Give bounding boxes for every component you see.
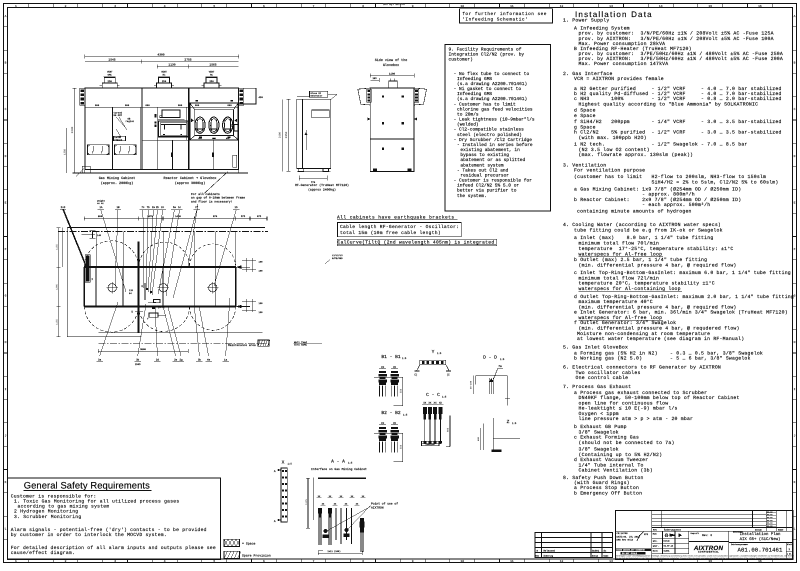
svg-text:1/4" Tube internal To: 1/4" Tube internal To <box>579 462 644 468</box>
svg-text:3/8" Swagelok: 3/8" Swagelok <box>579 429 619 435</box>
svg-text:gez.: gez. <box>653 540 658 543</box>
svg-text:XX: XX <box>381 422 385 425</box>
svg-text:Weitergabe sowie Vervielfältig: Weitergabe sowie Vervielfältigung dieser… <box>616 555 795 558</box>
svg-text:1175: 1175 <box>305 499 308 505</box>
svg-text:customer): customer) <box>449 57 473 63</box>
svg-text:xx.xx: xx.xx <box>767 525 772 527</box>
svg-text:f SiH4/H2 200ppm - 1/4: f SiH4/H2 200ppm - 1/4" VCRF - 3.0 … 3.5… <box>574 119 782 125</box>
svg-text:90 OFF: 90 OFF <box>114 114 123 117</box>
svg-text:2e: 2e <box>174 359 178 362</box>
svg-text:3: 3 <box>114 560 116 563</box>
svg-text:(approx 2400kg): (approx 2400kg) <box>308 188 336 192</box>
svg-text:Cable length RF-Generator - Os: Cable length RF-Generator - Oscillator: <box>340 224 459 230</box>
svg-text:minimum total flow 70l/min: minimum total flow 70l/min <box>579 241 660 247</box>
svg-text:14: 14 <box>659 5 663 8</box>
svg-text:AIX G5+ (SiC/New): AIX G5+ (SiC/New) <box>740 537 781 542</box>
svg-text:12: 12 <box>560 560 564 563</box>
svg-text:F: F <box>5 248 7 251</box>
svg-text:4. Cooling Water (according to: 4. Cooling Water (according to AIXTRON w… <box>563 222 721 228</box>
svg-text:Moisture non-condensing at roo: Moisture non-condensing at room temperat… <box>577 331 710 337</box>
svg-text:For all cabinets: For all cabinets <box>191 192 220 196</box>
svg-text:infeed Cl2/N2 5% 5.0 or: infeed Cl2/N2 5% 5.0 or <box>457 183 519 189</box>
svg-text:RF-Generator (TruHeat MF7120): RF-Generator (TruHeat MF7120) <box>295 183 349 187</box>
svg-text:region: region <box>126 120 135 123</box>
svg-text:5a: 5a <box>173 206 177 209</box>
svg-text:- Customer has to limit: - Customer has to limit <box>454 101 516 107</box>
svg-text:abatement system: abatement system <box>460 162 504 168</box>
svg-text:'Infeeding Schematic': 'Infeeding Schematic' <box>462 17 528 23</box>
svg-text:7: 7 <box>313 560 315 563</box>
svg-text:D: D <box>5 155 7 158</box>
svg-text:Blatt: Blatt <box>787 543 792 546</box>
svg-text:4300: 4300 <box>157 54 164 57</box>
svg-text:1:5: 1:5 <box>402 357 407 360</box>
svg-text:3800: 3800 <box>140 348 146 351</box>
svg-text:SiH4/H2 = 2% to 5slm, Cl2/N2 5: SiH4/H2 = 2% to 5slm, Cl2/N2 5% to 60slm… <box>574 180 779 186</box>
svg-text:C: C <box>794 108 796 111</box>
svg-text:B1 - B1: B1 - B1 <box>381 354 401 360</box>
svg-text:and floor is necessary!: and floor is necessary! <box>191 199 233 203</box>
svg-text:575: 575 <box>241 215 246 218</box>
svg-text:800: 800 <box>98 215 103 218</box>
svg-text:1:5: 1:5 <box>500 358 505 361</box>
svg-text:11: 11 <box>510 5 514 8</box>
svg-text:2: 2 <box>65 5 67 8</box>
svg-text:G: G <box>5 295 7 298</box>
svg-text:50-100: 50-100 <box>470 380 473 389</box>
svg-text:Name: Name <box>778 528 784 531</box>
svg-text:4: 4 <box>164 5 166 8</box>
svg-text:xx.xx: xx.xx <box>767 511 772 513</box>
svg-text:3. Ventilation: 3. Ventilation <box>563 163 606 169</box>
svg-text:I: I <box>5 388 7 391</box>
svg-text:1250: 1250 <box>63 148 66 155</box>
svg-text:i N2 tech. - 1/2: i N2 tech. - 1/2" Swagelok - 7.0 … 8.5 b… <box>574 142 748 148</box>
svg-text:b Emergency Off Button: b Emergency Off Button <box>574 491 642 497</box>
svg-text:8: 8 <box>362 560 364 563</box>
svg-text:3b: 3b <box>198 359 202 362</box>
svg-text:10: 10 <box>460 560 464 563</box>
svg-text:C|: C| <box>414 372 417 376</box>
svg-text:- Installed in series before: - Installed in series before <box>457 142 533 148</box>
svg-text:550: 550 <box>400 444 403 449</box>
svg-text:SuS01: SuS01 <box>592 550 600 553</box>
svg-text:abatement or as splitted: abatement or as splitted <box>460 157 525 163</box>
svg-text:a Process Stop Button: a Process Stop Button <box>574 485 639 491</box>
svg-text:Maintenance area: Maintenance area <box>228 343 256 347</box>
svg-text:F: F <box>794 248 796 251</box>
svg-text:by customer in order to interl: by customer in order to interlock the MO… <box>11 532 167 538</box>
svg-text:SuS01: SuS01 <box>664 550 671 553</box>
svg-text:[5-7]: [5-7] <box>158 306 165 309</box>
svg-text:Installation Plan: Installation Plan <box>740 532 781 537</box>
svg-text:(Containing up to 5% H2/N2): (Containing up to 5% H2/N2) <box>579 452 663 458</box>
svg-text:140: 140 <box>97 234 102 237</box>
svg-text:1c: 1c <box>178 206 182 209</box>
svg-text:2: 2 <box>65 560 67 563</box>
svg-text:7c: 7c <box>141 206 145 209</box>
svg-text:temperature 20°C, temperature: temperature 20°C, temperature stability … <box>579 281 715 287</box>
svg-text:GMC: GMC <box>108 73 113 76</box>
svg-text:temperature 17°-25°C, tempera: temperature 17°-25°C, temperature stabil… <box>579 246 734 252</box>
svg-text:6. Electrical connectors to RF: 6. Electrical connectors to RF Generator… <box>563 364 721 370</box>
svg-text:(customer has to limit H2-fl: (customer has to limit H2-flow to 200slm… <box>574 174 766 180</box>
svg-text:A01.00.701461: A01.00.701461 <box>738 547 783 554</box>
svg-text:(approx. 2000kg): (approx. 2000kg) <box>101 181 134 186</box>
svg-text:tube fitting could be e.g from: tube fitting could be e.g from IK-ok or … <box>574 227 723 233</box>
svg-text:Gas Mixing Cabinet: Gas Mixing Cabinet <box>99 176 136 181</box>
svg-text:5: 5 <box>213 5 215 8</box>
svg-text:B: B <box>5 62 7 65</box>
svg-text:7a: 7a <box>498 365 502 368</box>
svg-text:250: 250 <box>108 80 113 83</box>
svg-text:J: J <box>794 434 796 437</box>
svg-text:2100: 2100 <box>279 131 282 138</box>
svg-text:the system.: the system. <box>457 193 487 199</box>
svg-text:DMS Rev 0/13: DMS Rev 0/13 <box>617 538 634 541</box>
svg-text:185: 185 <box>372 77 377 80</box>
svg-text:4e: 4e <box>207 359 211 362</box>
svg-text:(min. differential pressure 4: (min. differential pressure 4 bar, @ req… <box>579 326 740 332</box>
svg-text:1a: 1a <box>224 359 228 362</box>
svg-text:2g: 2g <box>179 359 183 362</box>
svg-text:15: 15 <box>708 560 712 563</box>
svg-text:02.07.13: 02.07.13 <box>664 545 674 548</box>
svg-text:b Exhaust GB Pump: b Exhaust GB Pump <box>574 424 627 430</box>
svg-text:150: 150 <box>259 302 264 305</box>
svg-text:1A: 1A <box>99 206 103 209</box>
svg-text:a Inlet (max) 8.0 bar, 1 1/: a Inlet (max) 8.0 bar, 1 1/4" tube fitti… <box>574 235 713 241</box>
svg-text:b Working gas (N2 5.0): b Working gas (N2 5.0) - 5 … 6 bar, 3/8"… <box>574 356 751 362</box>
svg-text:3b: 3b <box>136 359 140 362</box>
svg-text:Spare Provision: Spare Provision <box>242 554 271 558</box>
svg-text:12: 12 <box>560 5 564 8</box>
svg-text:(with Guard Rings): (with Guard Rings) <box>574 480 630 486</box>
svg-text:(min. differential pressure 4: (min. differential pressure 4 bar, @ req… <box>579 304 737 310</box>
svg-text:1565: 1565 <box>209 64 216 67</box>
svg-text:for further information see: for further information see <box>462 11 547 17</box>
svg-text:- Customer is responsible for: - Customer is responsible for <box>454 178 533 184</box>
svg-text:Änderungstext: Änderungstext <box>664 528 682 531</box>
svg-text:Y: Y <box>432 349 435 355</box>
svg-text:250x250: 250x250 <box>425 443 435 446</box>
svg-text:150: 150 <box>259 311 264 314</box>
svg-text:Rev: Rev <box>653 528 658 531</box>
svg-text:970: 970 <box>213 215 218 218</box>
svg-text:CONFIDENTIAL: CONFIDENTIAL <box>698 551 719 554</box>
svg-text:8: 8 <box>362 5 364 8</box>
svg-text:bypass to existing: bypass to existing <box>460 152 509 158</box>
svg-text:8. Safety Push Down Button: 8. Safety Push Down Button <box>563 475 644 481</box>
svg-text:- each approx. 500m³/h: - each approx. 500m³/h <box>574 202 710 208</box>
svg-text:1130: 1130 <box>168 64 175 67</box>
svg-text:Infeeding GMS: Infeeding GMS <box>457 76 492 82</box>
svg-text:(welded): (welded) <box>457 122 479 128</box>
svg-text:2b: 2b <box>156 206 160 209</box>
svg-text:13: 13 <box>609 560 613 563</box>
svg-text:He-leaktight ≤ 10 E(-9) mbar l: He-leaktight ≤ 10 E(-9) mbar l/s <box>579 406 678 412</box>
svg-text:- Takes out Cl2 and: - Takes out Cl2 and <box>457 167 509 173</box>
svg-text:xx.xx: xx.xx <box>767 523 772 525</box>
svg-text:10: 10 <box>460 5 464 8</box>
svg-text:xx.xx: xx.xx <box>767 514 772 516</box>
svg-text:VCR = AIXTRON provides female: VCR = AIXTRON provides female <box>574 76 664 82</box>
svg-text:Max. Power consumption 147kVA: Max. Power consumption 147kVA <box>579 61 669 67</box>
svg-text:430: 430 <box>259 96 264 99</box>
svg-text:d Exhaust Vacuum Tweezer: d Exhaust Vacuum Tweezer <box>574 457 648 463</box>
svg-text:1:5: 1:5 <box>437 352 442 355</box>
svg-text:(approx 3000kg): (approx 3000kg) <box>175 181 206 186</box>
svg-text:X: X <box>282 459 285 465</box>
svg-text:existing abatement, in: existing abatement, in <box>460 147 520 153</box>
svg-text:H: H <box>794 341 796 344</box>
svg-text:6: 6 <box>263 560 265 563</box>
svg-text:600: 600 <box>125 104 130 107</box>
svg-text:- Cl2-compatible stainless: - Cl2-compatible stainless <box>454 127 525 133</box>
svg-text:thru GaMC: thru GaMC <box>294 344 307 347</box>
svg-text:675: 675 <box>257 215 262 218</box>
svg-text:line pressure atm > p > atm -: line pressure atm > p > atm - 20 mbar <box>579 416 694 422</box>
svg-text:3a: 3a <box>98 359 102 362</box>
svg-text:e Space: e Space <box>574 113 596 119</box>
svg-text:L: L <box>5 528 7 531</box>
svg-text:550: 550 <box>400 388 403 393</box>
svg-text:Datum: Datum <box>592 555 599 558</box>
svg-text:(N2 3.5 low O2 content): (N2 3.5 low O2 content) <box>579 147 650 153</box>
svg-text:C: C <box>5 108 7 111</box>
svg-text:1545: 1545 <box>108 59 115 62</box>
svg-text:Two oscillator cables: Two oscillator cables <box>576 370 641 376</box>
svg-text:For ventilation purpose: For ventilation purpose <box>574 168 645 174</box>
svg-text:A: A <box>5 15 7 18</box>
svg-text:Änderung: Änderung <box>544 555 554 558</box>
svg-text:- Ni gasket to connect to: - Ni gasket to connect to <box>454 86 522 92</box>
svg-text:c NH3 100% - 1/2: c NH3 100% - 1/2" VCRF - 0.8 … 2.0 bar-s… <box>574 96 782 102</box>
svg-text:K: K <box>794 481 796 484</box>
svg-text:AIXTRON: AIXTRON <box>371 507 384 510</box>
svg-text:5: 5 <box>213 560 215 563</box>
svg-text:XX: XX <box>393 422 397 425</box>
svg-text:E: E <box>794 201 796 204</box>
svg-text:a Forming gas (5% H2 in N2): a Forming gas (5% H2 in N2) - 0.3 … 0.5 … <box>574 350 763 356</box>
svg-text:11: 11 <box>510 560 514 563</box>
svg-text:|C: |C <box>446 372 450 376</box>
svg-text:9: 9 <box>412 5 414 8</box>
svg-text:5. Gas Inlet GloveBox: 5. Gas Inlet GloveBox <box>563 345 628 351</box>
svg-text:600: 600 <box>95 104 100 107</box>
svg-text:(should not be connected to 7a: (should not be connected to 7a) <box>579 440 675 446</box>
svg-text:1100: 1100 <box>389 72 396 75</box>
svg-text:For detailed description of al: For detailed description of all alarm in… <box>11 545 216 551</box>
svg-text:A Infeeding System: A Infeeding System <box>574 26 630 32</box>
svg-text:- Leak tightness (10-9mbar*l/s: - Leak tightness (10-9mbar*l/s <box>454 117 535 123</box>
svg-text:Gepruft: Gepruft <box>691 532 699 535</box>
svg-text:3/8" Swagelok: 3/8" Swagelok <box>579 447 619 453</box>
svg-text:600: 600 <box>178 104 183 107</box>
svg-text:600: 600 <box>145 104 150 107</box>
svg-text:Datum: Datum <box>664 540 671 543</box>
svg-text:Interface on Gas Mixing Cabine: Interface on Gas Mixing Cabinet <box>311 467 367 471</box>
svg-text:prov. by customer: 3/N/PE/60H: prov. by customer: 3/N/PE/60Hz ±1% / 208… <box>579 31 774 37</box>
svg-text:Integration Cl2/N2 (prov. by: Integration Cl2/N2 (prov. by <box>449 52 525 58</box>
svg-text:2x3: 2x3 <box>61 206 66 209</box>
svg-text:2 Hydrogen Monitoring: 2 Hydrogen Monitoring <box>14 509 78 515</box>
svg-text:g Space: g Space <box>574 125 596 131</box>
svg-text:E: E <box>5 201 7 204</box>
svg-text:(with max. 100ppb H2O): (with max. 100ppb H2O) <box>579 135 647 141</box>
svg-text:2d: 2d <box>156 359 160 362</box>
svg-text:N73: N73 <box>644 533 649 536</box>
svg-text:total 15m (10m free cable leng: total 15m (10m free cable length) <box>340 230 441 236</box>
svg-text:Infeeding GMS: Infeeding GMS <box>457 91 492 97</box>
svg-text:A - A: A - A <box>331 458 345 464</box>
svg-text:C - C: C - C <box>426 392 440 398</box>
svg-text:14: 14 <box>659 560 663 563</box>
svg-text:xx.xx: xx.xx <box>767 520 772 522</box>
svg-text:6: 6 <box>263 5 265 8</box>
svg-text:Customer is responsible for:: Customer is responsible for: <box>11 494 97 500</box>
svg-text:A: A <box>794 15 796 18</box>
svg-text:1:5: 1:5 <box>403 413 408 416</box>
svg-text:Released: Released <box>544 550 556 553</box>
svg-text:1295: 1295 <box>55 284 58 290</box>
svg-text:minimum total flow 72l/min: minimum total flow 72l/min <box>579 275 660 281</box>
svg-text:Datum: Datum <box>755 528 762 531</box>
svg-text:b Outlet (max) 2.5 bar, 1 1/4": b Outlet (max) 2.5 bar, 1 1/4" tube fitt… <box>574 257 707 263</box>
svg-text:1: 1 <box>15 560 17 563</box>
svg-text:150: 150 <box>259 270 264 273</box>
svg-text:D: D <box>794 155 796 158</box>
svg-text:a Gas Mixing Cabinet: 1x9 7/8": a Gas Mixing Cabinet: 1x9 7/8" (Ø254mm O… <box>574 187 741 193</box>
svg-text:open line for continuous flow: open line for continuous flow <box>579 400 669 406</box>
svg-text:xx.xx: xx.xx <box>767 517 772 519</box>
svg-text:1155: 1155 <box>55 244 58 250</box>
svg-text:7: 7 <box>313 5 315 8</box>
svg-text:1. Power Supply: 1. Power Supply <box>563 17 609 23</box>
svg-text:XX: XX <box>393 366 397 369</box>
svg-text:e Inlet Generator: 6 bar, min.: e Inlet Generator: 6 bar, min. 36l/min 3… <box>574 310 788 316</box>
svg-text:1B: 1B <box>116 206 120 209</box>
svg-text:3: 3 <box>114 5 116 8</box>
svg-text:d Outlet Top-Ring-Bottom-GasIn: d Outlet Top-Ring-Bottom-GasInlet: maxim… <box>574 294 794 300</box>
svg-text:cause/effect diagram.: cause/effect diagram. <box>11 550 75 556</box>
svg-text:3. Scrubber Monitoring: 3. Scrubber Monitoring <box>14 514 81 520</box>
svg-text:1:5: 1:5 <box>512 422 517 425</box>
svg-text:d Space: d Space <box>574 108 596 114</box>
svg-text:2f: 2f <box>195 206 199 209</box>
svg-text:L: L <box>794 528 796 531</box>
svg-text:1:5: 1:5 <box>442 395 447 398</box>
svg-text:DMS mgl marble: DMS mgl marble <box>383 3 405 6</box>
svg-text:2c: 2c <box>161 206 165 209</box>
svg-text:9. Facility Requirements of: 9. Facility Requirements of <box>449 46 522 52</box>
svg-text:2050: 2050 <box>285 131 288 138</box>
svg-text:XX: XX <box>381 366 385 369</box>
svg-text:Z: Z <box>507 419 510 425</box>
svg-text:steel (electro polished): steel (electro polished) <box>457 132 522 138</box>
svg-text:a Process gas exhaust connecte: a Process gas exhaust connected to Scrub… <box>574 390 707 396</box>
svg-text:to 20m/s: to 20m/s <box>457 111 479 117</box>
svg-text:16: 16 <box>758 560 762 563</box>
svg-text:B Infeeding RF-Heater (TruHeat: B Infeeding RF-Heater (TruHeat MF7120) <box>574 46 692 52</box>
svg-text:600: 600 <box>195 104 200 107</box>
svg-text:1:5: 1:5 <box>288 463 293 466</box>
svg-text:9: 9 <box>412 560 414 563</box>
svg-text:K: K <box>5 481 7 484</box>
svg-text:2755: 2755 <box>184 59 191 62</box>
svg-text:better via purifier to: better via purifier to <box>457 188 517 194</box>
svg-text:1x11 (100): 1x11 (100) <box>327 550 340 553</box>
svg-text:an gap of 0-10mm between frame: an gap of 0-10mm between frame <box>191 196 245 200</box>
svg-text:7b: 7b <box>147 206 151 209</box>
svg-text:13: 13 <box>609 5 613 8</box>
svg-text:Norm: Norm <box>653 550 659 553</box>
svg-text:Alarm signals - potential-free: Alarm signals - potential-free ('dry') c… <box>11 527 207 533</box>
svg-text:16: 16 <box>758 5 762 8</box>
svg-text:1. Toxic Gas Monitoring for al: 1. Toxic Gas Monitoring for all utilized… <box>14 499 179 505</box>
svg-text:1155: 1155 <box>55 319 58 325</box>
svg-text:7. Process Gas Exhaust: 7. Process Gas Exhaust <box>563 384 631 390</box>
svg-text:600: 600 <box>447 427 450 432</box>
svg-text:DN40KF flange, 50-100mm below: DN40KF flange, 50-100mm below top of Rea… <box>579 395 740 401</box>
svg-text:N/PE/GND: N/PE/GND <box>332 257 343 260</box>
svg-text:I: I <box>794 388 796 391</box>
svg-text:c Exhaust Forming Gas: c Exhaust Forming Gas <box>574 435 639 441</box>
svg-text:Name: Name <box>604 555 610 558</box>
svg-text:B2 - B2: B2 - B2 <box>381 410 401 416</box>
svg-text:on 4x: on 4x <box>97 202 104 205</box>
svg-text:250: 250 <box>209 80 214 83</box>
svg-text:(max. flowrate approx. 130slm: (max. flowrate approx. 130slm (peak)) <box>579 152 694 158</box>
svg-text:General Safety Requirements: General Safety Requirements <box>24 480 150 491</box>
svg-text:Generator: Generator <box>311 95 324 98</box>
svg-text:c Inlet Top-Ring-Bottom-GasInl: c Inlet Top-Ring-Bottom-GasInlet: maximu… <box>574 270 791 276</box>
svg-text:1b: 1b <box>235 206 239 209</box>
svg-text:600: 600 <box>477 436 480 441</box>
svg-text:h Cl2/N2 5% purified - 1/2: h Cl2/N2 5% purified - 1/2" VCRF - 3.0 …… <box>574 130 782 136</box>
svg-text:Glovebox: Glovebox <box>383 63 399 68</box>
svg-text:600: 600 <box>227 104 232 107</box>
svg-text:Rev: 0: Rev: 0 <box>702 534 712 537</box>
svg-text:für den Fall der Patenterteilu: für den Fall der Patenterteilung oder Ge… <box>616 557 794 560</box>
svg-text:Reactor Cabinet + Glovebox: Reactor Cabinet + Glovebox <box>164 176 217 181</box>
svg-text:b H2 quality Pd-diffused - 1/2: b H2 quality Pd-diffused - 1/2" VCRF - 4… <box>574 91 782 97</box>
svg-text:(min. differential pressure 4: (min. differential pressure 4 bar, @ req… <box>579 262 737 268</box>
svg-text:H: H <box>5 341 7 344</box>
svg-text:gepr.: gepr. <box>653 545 659 548</box>
svg-text:= Space: = Space <box>242 542 255 546</box>
svg-text:containing minute amounts of h: containing minute amounts of hydrogen <box>577 209 692 215</box>
svg-text:250: 250 <box>162 80 167 83</box>
svg-text:- No flex tube to connect to: - No flex tube to connect to <box>454 71 530 77</box>
svg-text:15: 15 <box>708 5 712 8</box>
svg-text:1: 1 <box>15 5 17 8</box>
svg-text:region: region <box>114 138 123 141</box>
svg-text:at lowest water temperature (s: at lowest water temperature (see diagram… <box>577 336 744 342</box>
svg-text:1545: 1545 <box>135 363 141 366</box>
svg-text:4: 4 <box>164 560 166 563</box>
svg-text:Side view of the: Side view of the <box>375 58 408 63</box>
svg-text:1:5: 1:5 <box>348 462 353 465</box>
svg-text:One control cable: One control cable <box>576 375 629 381</box>
svg-text:- approx. 800m³/h: - approx. 800m³/h <box>574 192 695 198</box>
svg-text:B: B <box>794 62 796 65</box>
svg-text:Oxygen < 1ppm: Oxygen < 1ppm <box>579 411 619 417</box>
svg-text:D - D: D - D <box>483 355 497 361</box>
svg-text:f Outlet Generator: 3/4" Swage: f Outlet Generator: 3/4" Swagelok <box>574 320 676 326</box>
svg-text:maximum temperature 40°C: maximum temperature 40°C <box>579 299 653 305</box>
svg-text:Point of use of: Point of use of <box>371 502 398 506</box>
